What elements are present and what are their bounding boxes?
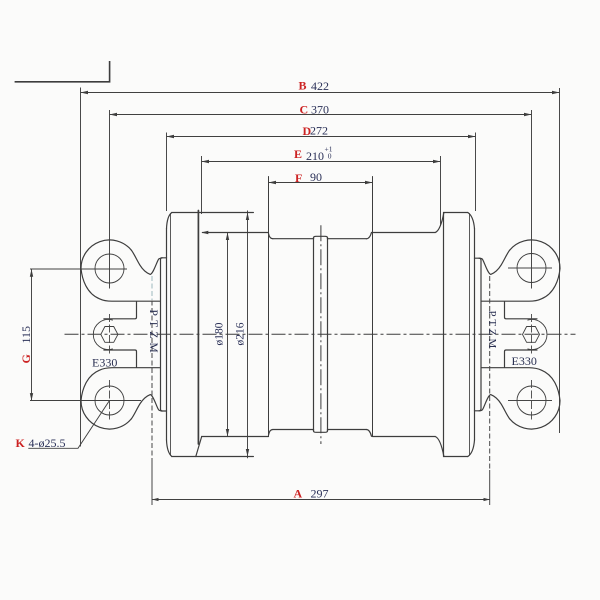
center section bottom edge right [328, 429, 367, 431]
left bracket lower lobe to collar dip [131, 395, 160, 419]
right bracket lower hole [517, 386, 546, 415]
left flange bottom chamfer [167, 440, 172, 457]
right bracket upper lobe [482, 240, 561, 301]
center section bottom edge left [273, 429, 314, 431]
dimension E right extension [440, 156, 442, 226]
center rib left line [313, 238, 315, 432]
right tread bottom ramp to flange [435, 437, 444, 457]
dimension A right extension solid end [489, 470, 491, 505]
dimension B 422 line [81, 92, 560, 94]
center section top edge left [273, 238, 314, 240]
arrow dia216 top [246, 213, 249, 221]
arrow B right [552, 91, 560, 94]
center section bottom-left fillet [269, 430, 273, 436]
right tread top ramp to flange [435, 213, 444, 233]
left flange top edge [172, 212, 254, 214]
right collar face [479, 258, 481, 411]
arrow C right [524, 113, 532, 116]
left bracket center boss arc [93, 320, 112, 350]
svg-text:K: K [16, 436, 26, 450]
left flange bottom edge [172, 456, 254, 458]
arrow dia216 bottom [246, 449, 249, 457]
arrow dia180 bottom [226, 429, 229, 437]
dimension B left extension [80, 88, 82, 447]
svg-text:PTZM: PTZM [486, 311, 498, 352]
svg-text:422: 422 [311, 79, 329, 93]
dimension G upper extension / upper hole centerline [30, 268, 127, 270]
dimension D left extension [166, 133, 168, 212]
center section top-left fillet [269, 234, 273, 239]
svg-text:F: F [295, 171, 302, 185]
left bracket upper lobe [81, 240, 160, 301]
svg-text:115: 115 [19, 326, 33, 344]
arrow F right [365, 181, 373, 184]
dimension E 210 line [202, 161, 441, 163]
right tread top edge [373, 232, 436, 234]
diameter 216 dimension line [247, 211, 249, 459]
left A extension teal dashed upper [151, 276, 153, 300]
dimension B right extension [559, 88, 561, 433]
right collar bottom edge [475, 410, 481, 412]
svg-text:C: C [300, 102, 309, 116]
left bracket upper hole [95, 254, 124, 283]
border corner mark [15, 61, 110, 82]
right bracket center boss arc [528, 320, 547, 350]
arrow E right [433, 160, 441, 163]
svg-text:G: G [19, 354, 33, 363]
svg-text:210: 210 [306, 149, 324, 163]
right flange bottom edge [444, 456, 468, 458]
left tread inner face / F extension [268, 177, 270, 437]
arrow G bottom [30, 393, 33, 401]
center rib bottom bump [314, 430, 328, 433]
svg-text:90: 90 [310, 170, 322, 184]
left bracket lower hole [95, 386, 124, 415]
left A extension dashed lower [151, 301, 153, 461]
dimension C left extension [109, 110, 111, 289]
left flange face [166, 229, 168, 440]
left bracket step block upper [104, 302, 137, 319]
arrow B left [81, 91, 89, 94]
dimension C right extension [531, 110, 533, 289]
dimension A 297 line [152, 499, 490, 501]
arrow E left [202, 160, 210, 163]
right bracket lower lobe [482, 368, 561, 429]
svg-text:PTZM: PTZM [147, 310, 159, 357]
right tread bottom edge [373, 436, 436, 438]
left bracket lower lobe [81, 368, 160, 429]
right flange face [474, 229, 476, 440]
left A extension solid end [151, 460, 153, 505]
svg-text:370: 370 [311, 102, 329, 116]
left tread bottom ramp [196, 437, 202, 457]
svg-text:E330: E330 [512, 354, 537, 368]
arrow C left [110, 113, 118, 116]
arrow A right [484, 498, 491, 501]
arrow F left [269, 181, 277, 184]
svg-text:E: E [294, 147, 302, 161]
left collar face [161, 258, 163, 411]
right bracket lower lobe to collar dip [481, 395, 510, 419]
diameter 180 dimension line [227, 233, 229, 437]
left tread top edge [203, 232, 269, 234]
right bracket center hex hole [523, 327, 540, 343]
roller vertical centerline [320, 225, 322, 444]
right bracket hex vertical centerline [531, 314, 533, 355]
left tread top arrow [201, 231, 208, 234]
right flange top edge [444, 212, 468, 214]
svg-text:272: 272 [310, 123, 328, 137]
right bracket upper lobe to collar dip [481, 250, 510, 274]
left collar bottom edge [161, 410, 167, 412]
left bracket center hex hole [101, 327, 118, 343]
arrow dia180 top [226, 233, 229, 241]
dimension A right extension lower part [489, 396, 491, 470]
right flange top chamfer [468, 213, 475, 229]
right A extension dashed [489, 276, 491, 395]
main horizontal centerline [65, 333, 576, 335]
dimension F 90 line [269, 182, 373, 184]
svg-text:E330: E330 [92, 355, 117, 369]
arrow D right [468, 135, 476, 138]
dimension C 370 line [110, 114, 532, 116]
right bracket step block lower [505, 350, 538, 367]
arrow D left [167, 135, 175, 138]
left flange chamfer inner line [170, 214, 172, 456]
svg-text:0: 0 [328, 152, 332, 161]
right bracket lower hole horizontal centerline [508, 400, 552, 402]
dimension D 272 line [167, 136, 476, 138]
arrow A left [152, 498, 159, 501]
right flange left face [443, 213, 445, 457]
arrow G top [30, 269, 33, 277]
right bracket upper hole [517, 254, 546, 283]
left bracket upper lobe to collar dip [131, 250, 160, 274]
left bracket step block lower [104, 350, 137, 367]
right flange bottom chamfer [468, 440, 475, 457]
right bracket lower hole vertical centerline [531, 380, 533, 421]
center section top edge right [328, 238, 367, 240]
tread joint line left [197, 211, 199, 445]
svg-text:B: B [299, 79, 307, 93]
dimension D right extension [475, 133, 477, 212]
left flange top chamfer [167, 213, 172, 229]
right collar top edge [475, 257, 481, 259]
svg-text:4-ø25.5: 4-ø25.5 [29, 436, 66, 450]
svg-text:A: A [294, 487, 303, 501]
right flange chamfer inner line [469, 214, 471, 456]
dimension G 115 line [31, 269, 33, 400]
dimension G lower extension / lower hole centerline [30, 400, 141, 402]
center section top-right ramp [366, 232, 371, 238]
center rib top bump [314, 236, 328, 238]
right tread inner face / F extension [372, 177, 374, 437]
left bracket lower hole vertical centerline [109, 380, 111, 421]
left collar top edge [161, 257, 167, 259]
left bracket hex vertical centerline [109, 314, 111, 355]
center rib right line [327, 238, 329, 432]
center section bottom-right ramp [366, 430, 371, 437]
svg-text:297: 297 [311, 487, 329, 501]
right bracket upper hole horizontal centerline [508, 267, 552, 269]
left tread bottom edge [202, 436, 269, 438]
dimension E left extension [201, 156, 203, 214]
leader line K to lower hole [28, 401, 109, 449]
right bracket step block upper [505, 302, 538, 319]
